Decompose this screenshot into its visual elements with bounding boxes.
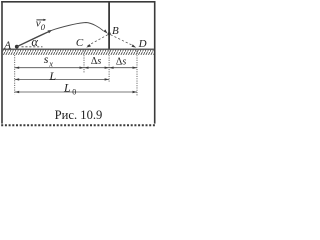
svg-text:D: D <box>138 38 147 50</box>
extension line below A <box>14 55 16 94</box>
svg-text:A: A <box>3 39 11 51</box>
dimension line L <box>15 78 109 80</box>
frame bottom dotted border <box>1 124 156 126</box>
extension line below C <box>83 51 85 73</box>
dashed line B to D <box>111 35 134 46</box>
svg-text:x: x <box>48 58 53 68</box>
svg-text:Рис. 10.9: Рис. 10.9 <box>55 108 103 122</box>
ground line <box>3 49 154 50</box>
extension line below wall <box>108 51 110 82</box>
trajectory arrowhead at B <box>104 29 108 33</box>
svg-text:s: s <box>44 52 49 66</box>
svg-text:0: 0 <box>41 22 46 32</box>
svg-text:0: 0 <box>72 87 76 96</box>
frame right border <box>154 1 156 124</box>
svg-text:L: L <box>63 81 71 95</box>
svg-text:Δs: Δs <box>91 56 101 67</box>
svg-text:C: C <box>76 37 84 49</box>
ground hatching <box>3 50 154 55</box>
frame top border <box>1 1 155 3</box>
svg-text:Δs: Δs <box>116 57 126 68</box>
arrowhead at C <box>86 44 91 47</box>
trajectory parabola <box>17 23 104 47</box>
dimension line L0 <box>15 91 137 93</box>
frame left border <box>1 1 3 124</box>
velocity vector v0 <box>17 31 50 46</box>
svg-text:α: α <box>31 35 38 49</box>
dimension line delta-s (C to wall) <box>84 67 109 69</box>
dimension line s_x <box>15 67 84 69</box>
dashed line B to C <box>88 35 108 46</box>
svg-text:B: B <box>112 25 119 37</box>
dimension line delta-s (wall to D) <box>109 67 137 69</box>
svg-text:L: L <box>48 69 56 83</box>
point B dot <box>108 32 111 35</box>
arrowhead at D <box>132 44 137 47</box>
extension line below D <box>136 51 138 97</box>
point A dot <box>15 45 19 49</box>
angle alpha dashed horizontal <box>22 46 43 48</box>
wall <box>108 2 110 48</box>
